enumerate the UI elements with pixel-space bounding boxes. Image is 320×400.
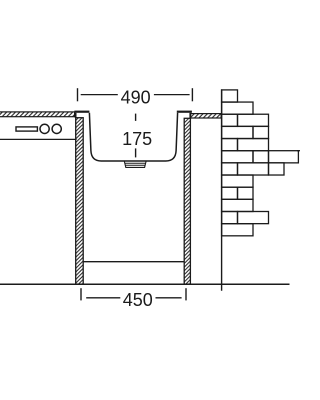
dimension 490 line (81, 94, 118, 96)
brick row 5 (222, 139, 238, 151)
countertop hatched band right (191, 114, 222, 118)
brick wall (222, 90, 300, 236)
brick row 6 (222, 151, 253, 163)
sink rim right (177, 111, 192, 113)
brick row 7 (222, 163, 238, 175)
knob circle 1 (40, 124, 49, 133)
dimension 490 ticks (77, 88, 79, 101)
dimension 450 ticks (80, 288, 82, 300)
cabinet side post left (76, 118, 84, 284)
brick row 9 (222, 187, 238, 199)
countertop hatched band left (0, 112, 75, 117)
sink rim left (74, 111, 89, 113)
cabinet bottom shelf line (84, 261, 185, 263)
drain fitting (124, 161, 146, 167)
brick row 10 (222, 199, 253, 211)
svg-text:450: 450 (123, 290, 153, 310)
dimension 450 line (86, 297, 120, 299)
drawer handle slot (16, 127, 37, 131)
knob circle 2 (52, 124, 61, 133)
brick row 2 (222, 102, 253, 114)
cabinet side post right (184, 118, 190, 284)
wall line (221, 89, 223, 290)
brick row 3 (222, 114, 238, 126)
dimension 175 line segments (135, 114, 137, 121)
cabinet front bottom line left (0, 138, 77, 140)
brick row 8 (222, 175, 253, 187)
brick row 4 (222, 126, 253, 138)
floor line (0, 283, 290, 285)
sink bowl (89, 113, 177, 161)
svg-text:490: 490 (121, 88, 151, 108)
svg-text:175: 175 (122, 129, 152, 149)
brick row 11 (222, 212, 238, 224)
brick row 1 (222, 90, 238, 102)
brick row 12 (222, 224, 253, 236)
